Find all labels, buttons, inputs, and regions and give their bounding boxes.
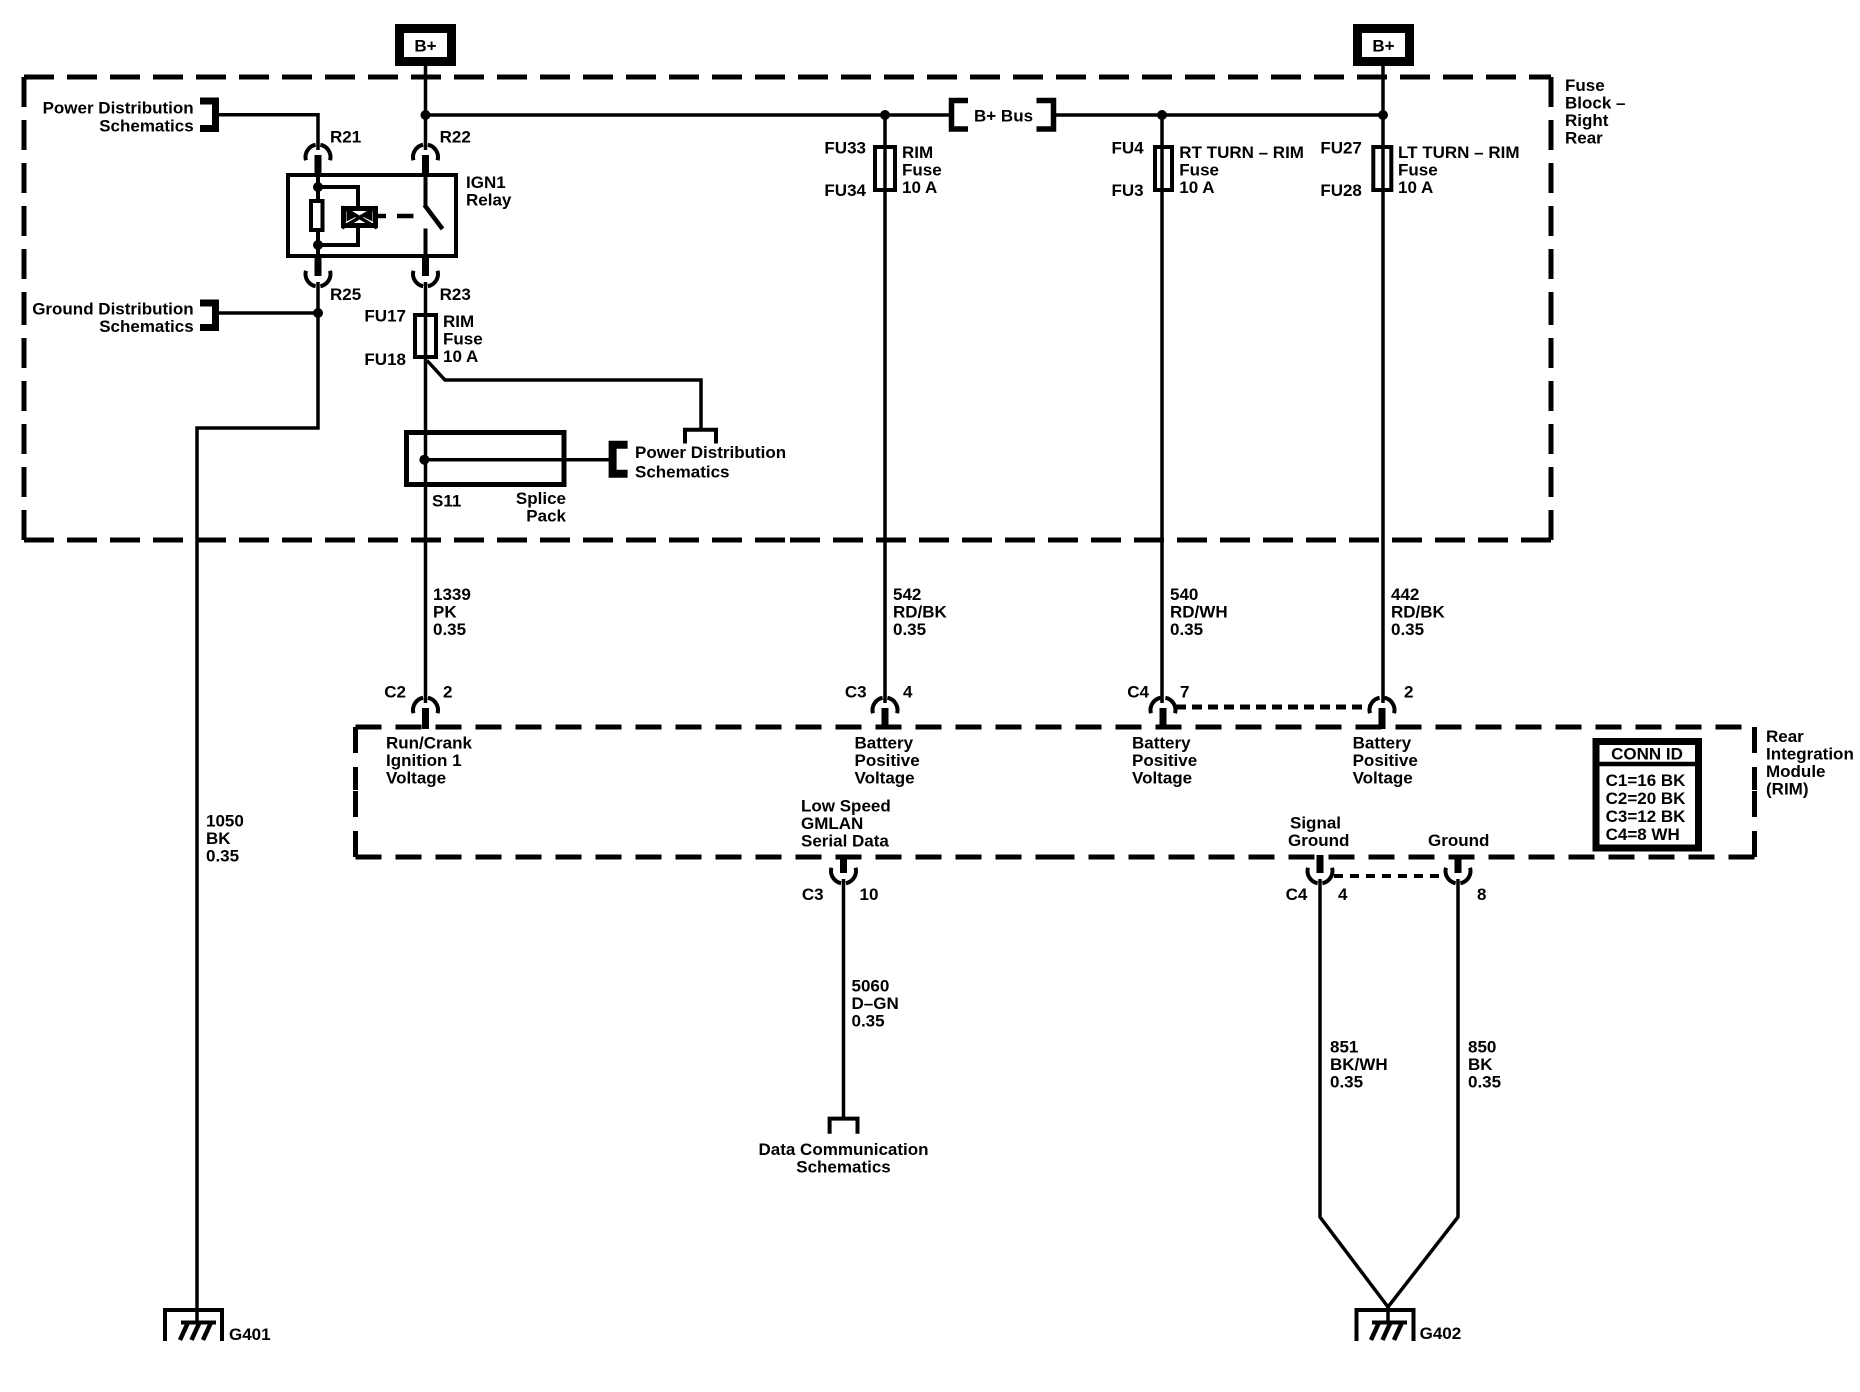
node: splice junction xyxy=(419,455,429,465)
wire: power distribution ref to R21 xyxy=(219,115,318,150)
svg-text:Battery: Battery xyxy=(855,734,914,753)
wire: branch FU18 to power distribution ref xyxy=(427,361,701,430)
svg-text:0.35: 0.35 xyxy=(433,620,466,639)
svg-text:Fuse: Fuse xyxy=(1565,76,1605,95)
ground G402 symbol xyxy=(1357,1310,1414,1341)
relay actuation dashed link xyxy=(378,214,387,219)
svg-text:BK: BK xyxy=(1468,1055,1493,1074)
svg-text:7: 7 xyxy=(1180,683,1189,702)
svg-text:Integration: Integration xyxy=(1766,745,1854,764)
svg-text:B+: B+ xyxy=(414,37,436,56)
svg-text:1050: 1050 xyxy=(206,812,244,831)
svg-text:D–GN: D–GN xyxy=(852,994,899,1013)
wire: 851 signal ground down to G402 xyxy=(1320,879,1388,1307)
power symbol B+ (left) xyxy=(400,29,452,62)
fuse FU33/FU34 (RIM Fuse 10 A) xyxy=(875,147,895,190)
svg-text:Serial Data: Serial Data xyxy=(801,832,889,851)
svg-text:RD/BK: RD/BK xyxy=(893,603,948,622)
svg-text:850: 850 xyxy=(1468,1038,1496,1057)
svg-text:10 A: 10 A xyxy=(1179,178,1214,197)
svg-text:Ground: Ground xyxy=(1288,831,1349,850)
svg-text:Fuse: Fuse xyxy=(1398,161,1438,180)
fuse FU4/FU3 (RT TURN - RIM Fuse 10 A) xyxy=(1155,147,1172,190)
wire: G402 stem xyxy=(1386,1305,1390,1323)
svg-text:IGN1: IGN1 xyxy=(466,173,506,192)
svg-text:C3=12 BK: C3=12 BK xyxy=(1606,807,1687,826)
wire: R25 down, jog left, down to G401 xyxy=(197,282,318,1323)
fuse FU27/FU28 (LT TURN - RIM Fuse 10 A) xyxy=(1373,147,1391,190)
svg-text:5060: 5060 xyxy=(852,977,890,996)
svg-text:540: 540 xyxy=(1170,585,1198,604)
svg-text:Data Communication: Data Communication xyxy=(758,1140,928,1159)
svg-text:0.35: 0.35 xyxy=(1170,620,1203,639)
dotted link: C4 pin 7 to pin 2 (same connector) xyxy=(1176,705,1370,710)
svg-text:Schematics: Schematics xyxy=(796,1158,891,1177)
svg-text:4: 4 xyxy=(903,683,913,702)
bracket: splice pack side ref xyxy=(613,445,628,474)
svg-text:CONN ID: CONN ID xyxy=(1611,744,1683,763)
svg-text:RIM: RIM xyxy=(443,312,474,331)
svg-text:C3: C3 xyxy=(845,683,867,702)
svg-text:2: 2 xyxy=(443,683,452,702)
svg-text:FU33: FU33 xyxy=(824,139,866,158)
svg-text:FU34: FU34 xyxy=(824,181,866,200)
svg-text:Low Speed: Low Speed xyxy=(801,797,891,816)
svg-text:G402: G402 xyxy=(1420,1324,1462,1343)
svg-text:Ground Distribution: Ground Distribution xyxy=(32,299,193,318)
svg-text:10 A: 10 A xyxy=(443,347,478,366)
svg-text:Voltage: Voltage xyxy=(855,769,915,788)
connector R21 xyxy=(306,145,316,161)
svg-text:LT TURN – RIM: LT TURN – RIM xyxy=(1398,143,1520,162)
svg-text:Run/Crank: Run/Crank xyxy=(386,734,473,753)
svg-text:Positive: Positive xyxy=(1353,751,1418,770)
svg-text:C3: C3 xyxy=(802,885,824,904)
relay coil lower node xyxy=(313,240,323,250)
wire: splice S11 to side ref xyxy=(424,458,612,462)
svg-text:Voltage: Voltage xyxy=(386,769,446,788)
svg-text:(RIM): (RIM) xyxy=(1766,780,1808,799)
svg-text:Battery: Battery xyxy=(1132,734,1191,753)
svg-text:S11: S11 xyxy=(432,492,461,511)
relay switch contact xyxy=(424,175,428,206)
bracket: power distribution ref xyxy=(200,101,216,129)
connector C4 pin 8 (ground) xyxy=(1455,855,1462,873)
svg-text:Power Distribution: Power Distribution xyxy=(43,99,194,118)
svg-text:BK/WH: BK/WH xyxy=(1330,1055,1388,1074)
wire: ground distribution ref to R25 wire xyxy=(219,311,318,315)
svg-text:Schematics: Schematics xyxy=(635,463,730,482)
connector C3 pin 10 (serial data) xyxy=(840,855,847,873)
wire: left B+ down through fuse block xyxy=(424,66,428,150)
svg-text:Module: Module xyxy=(1766,762,1826,781)
svg-text:Schematics: Schematics xyxy=(99,116,194,135)
svg-text:GMLAN: GMLAN xyxy=(801,814,863,833)
connector C4 pin 4 (signal ground) xyxy=(1317,855,1324,873)
svg-text:FU4: FU4 xyxy=(1111,139,1144,158)
svg-text:B+: B+ xyxy=(1372,37,1394,56)
svg-text:RD/BK: RD/BK xyxy=(1391,603,1446,622)
svg-text:10: 10 xyxy=(860,885,879,904)
wire: bus through FU4/FU3 fuse to RIM C4 pin 7 xyxy=(1160,115,1164,703)
wire: 850 ground down to G402 xyxy=(1388,879,1458,1307)
svg-text:Voltage: Voltage xyxy=(1132,769,1192,788)
fuse FU17/FU18 (RIM Fuse 10 A) xyxy=(415,315,436,357)
svg-text:Splice: Splice xyxy=(516,489,566,508)
connector R25 xyxy=(315,256,322,276)
ground G401 symbol xyxy=(165,1310,222,1341)
svg-text:R23: R23 xyxy=(440,285,471,304)
node: right B+ feed xyxy=(1378,110,1388,120)
svg-text:FU3: FU3 xyxy=(1111,181,1143,200)
svg-text:FU28: FU28 xyxy=(1320,181,1362,200)
relay coil resistor element xyxy=(316,175,320,201)
svg-text:Rear: Rear xyxy=(1565,129,1603,148)
svg-text:Power Distribution: Power Distribution xyxy=(635,443,786,462)
dashed link: C4 pin 4 to pin 8 xyxy=(1334,874,1444,878)
svg-text:0.35: 0.35 xyxy=(1391,620,1424,639)
svg-text:Ignition 1: Ignition 1 xyxy=(386,751,462,770)
svg-text:C1=16 BK: C1=16 BK xyxy=(1606,771,1687,790)
node: FU33 tap xyxy=(880,110,890,120)
wire: right B+ through FU27/FU28 fuse to RIM C4 pin 2 xyxy=(1381,66,1385,703)
svg-text:Fuse: Fuse xyxy=(1179,161,1219,180)
wire: serial data down xyxy=(842,879,846,1118)
wire: bus through FU33/FU34 fuse to RIM C3 pin 4 xyxy=(883,115,887,703)
bus name bracket right xyxy=(1037,101,1054,130)
svg-text:C4: C4 xyxy=(1127,683,1149,702)
svg-text:442: 442 xyxy=(1391,585,1419,604)
node: ground distribution junction xyxy=(313,308,323,318)
svg-text:4: 4 xyxy=(1338,885,1348,904)
svg-text:Block –: Block – xyxy=(1565,94,1625,113)
svg-text:RD/WH: RD/WH xyxy=(1170,603,1228,622)
fuse block - right rear (dashed outline) xyxy=(24,75,1551,80)
bracket: power distribution ref (down) xyxy=(685,430,716,444)
svg-text:Pack: Pack xyxy=(526,507,566,526)
svg-text:Positive: Positive xyxy=(855,751,920,770)
svg-text:PK: PK xyxy=(433,603,457,622)
wire: B+ bus (right segment) xyxy=(1051,113,1383,117)
svg-text:8: 8 xyxy=(1477,885,1486,904)
svg-text:2: 2 xyxy=(1404,683,1413,702)
svg-text:Signal: Signal xyxy=(1290,814,1341,833)
svg-text:FU18: FU18 xyxy=(364,350,406,369)
svg-text:FU27: FU27 xyxy=(1320,139,1362,158)
connector R22 xyxy=(413,145,423,161)
svg-text:851: 851 xyxy=(1330,1038,1358,1057)
svg-text:Right: Right xyxy=(1565,111,1609,130)
relay coil winding box with X xyxy=(344,209,376,226)
relay coil feed node xyxy=(313,182,323,192)
wire: B+ bus (left segment) xyxy=(426,113,952,117)
svg-text:R22: R22 xyxy=(440,128,471,147)
splice pack S11 box xyxy=(407,433,565,485)
svg-text:10 A: 10 A xyxy=(1398,178,1433,197)
wire: R23 through FU17/FU18 fuse and S11 splice to RIM C2 pin 2 xyxy=(424,282,428,703)
svg-text:0.35: 0.35 xyxy=(1330,1073,1363,1092)
svg-text:RT TURN – RIM: RT TURN – RIM xyxy=(1179,143,1304,162)
svg-text:Positive: Positive xyxy=(1132,751,1197,770)
table: CONN ID xyxy=(1596,742,1699,849)
relay coil loop wire xyxy=(318,187,358,245)
svg-text:1339: 1339 xyxy=(433,585,471,604)
svg-text:RIM: RIM xyxy=(902,143,933,162)
power symbol B+ (right) xyxy=(1358,29,1410,62)
svg-text:BK: BK xyxy=(206,829,231,848)
svg-text:R25: R25 xyxy=(330,285,361,304)
svg-text:G401: G401 xyxy=(229,1325,271,1344)
bracket: data communication ref xyxy=(830,1119,858,1134)
svg-text:10 A: 10 A xyxy=(902,178,937,197)
svg-text:0.35: 0.35 xyxy=(893,620,926,639)
module: Rear Integration Module (dashed outline) xyxy=(356,725,1755,730)
svg-text:0.35: 0.35 xyxy=(1468,1073,1501,1092)
svg-text:Fuse: Fuse xyxy=(902,161,942,180)
svg-text:0.35: 0.35 xyxy=(852,1012,885,1031)
svg-text:Fuse: Fuse xyxy=(443,330,483,349)
relay U1: IGN1 Relay outline xyxy=(288,175,456,256)
svg-text:C2=20 BK: C2=20 BK xyxy=(1606,789,1687,808)
svg-text:B+ Bus: B+ Bus xyxy=(974,107,1033,126)
svg-text:542: 542 xyxy=(893,585,921,604)
svg-text:FU17: FU17 xyxy=(364,307,406,326)
svg-text:Battery: Battery xyxy=(1353,734,1412,753)
svg-text:Relay: Relay xyxy=(466,191,512,210)
connector R23 xyxy=(422,256,429,276)
svg-text:Ground: Ground xyxy=(1428,831,1489,850)
svg-text:0.35: 0.35 xyxy=(206,847,239,866)
node: FU4 tap xyxy=(1157,110,1167,120)
svg-text:C4: C4 xyxy=(1286,885,1308,904)
svg-text:Voltage: Voltage xyxy=(1353,769,1413,788)
svg-text:Schematics: Schematics xyxy=(99,317,194,336)
svg-text:Rear: Rear xyxy=(1766,727,1804,746)
bracket: ground distribution ref xyxy=(200,303,216,328)
svg-text:R21: R21 xyxy=(330,128,361,147)
bus name bracket left xyxy=(952,101,969,130)
svg-text:C2: C2 xyxy=(384,683,406,702)
svg-text:C4=8 WH: C4=8 WH xyxy=(1606,825,1680,844)
node: bus junction at left B+ feed xyxy=(421,110,431,120)
